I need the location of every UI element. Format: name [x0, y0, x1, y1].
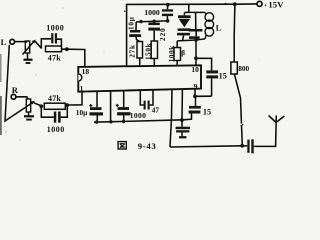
svg-text:1000: 1000	[47, 125, 65, 134]
svg-text:1000: 1000	[144, 8, 160, 17]
svg-text:10μ: 10μ	[127, 16, 135, 30]
svg-text:800: 800	[238, 64, 249, 73]
svg-text:15: 15	[219, 71, 227, 80]
svg-text:10: 10	[191, 65, 199, 74]
svg-text:β: β	[181, 49, 185, 57]
svg-text:+: +	[264, 3, 267, 9]
svg-text:15: 15	[203, 107, 211, 116]
svg-text:47: 47	[152, 105, 160, 114]
svg-text:R: R	[12, 85, 19, 95]
svg-text:1000: 1000	[46, 24, 64, 33]
svg-text:220: 220	[159, 27, 167, 41]
svg-text:18: 18	[82, 67, 90, 76]
svg-text:10μ: 10μ	[76, 108, 88, 117]
svg-text:L: L	[216, 23, 221, 32]
svg-text:47k: 47k	[48, 53, 61, 62]
svg-text:27k: 27k	[129, 44, 137, 58]
svg-text:1: 1	[80, 84, 84, 93]
svg-text:9-43: 9-43	[138, 141, 157, 151]
svg-text:47k: 47k	[48, 94, 61, 103]
svg-text:1000: 1000	[130, 111, 146, 120]
svg-text:15V: 15V	[268, 0, 284, 10]
svg-text:L: L	[1, 37, 7, 47]
